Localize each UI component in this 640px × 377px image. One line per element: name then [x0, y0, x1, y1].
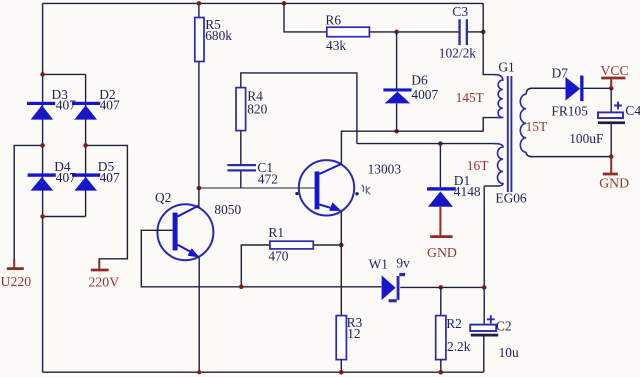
svg-text:12: 12	[347, 326, 360, 341]
wire 16T bottom to zener node	[483, 186, 485, 287]
svg-text:407: 407	[56, 98, 76, 113]
svg-text:GND: GND	[427, 245, 457, 260]
diode D1	[427, 187, 456, 190]
zener W1	[382, 275, 396, 300]
svg-text:2.2k: 2.2k	[447, 339, 471, 354]
transistor 13003	[299, 160, 354, 215]
svg-text:680k: 680k	[205, 28, 232, 43]
svg-text:8050: 8050	[214, 202, 241, 217]
capacitor C3	[458, 19, 460, 45]
svg-text:R6: R6	[325, 13, 341, 28]
wire top rail	[43, 2, 484, 4]
resistor R5	[198, 3, 200, 17]
wire AC left bracket to U220	[14, 145, 42, 259]
diode D3	[27, 102, 55, 105]
terminal 220V	[98, 260, 100, 269]
diode D7	[566, 77, 581, 101]
transistor Q2	[157, 204, 213, 260]
node bridge top junction	[40, 72, 45, 77]
svg-text:472: 472	[258, 172, 278, 187]
wire left main vertical (bridge left column down to bottom rail)	[42, 3, 44, 372]
resistor R1	[241, 245, 270, 287]
wire 13003 collector to transformer primary	[341, 118, 497, 165]
svg-text:G1: G1	[498, 59, 514, 74]
svg-text:407: 407	[56, 170, 76, 185]
svg-text:D6: D6	[411, 73, 428, 88]
svg-text:220V: 220V	[89, 275, 120, 290]
node D6 top junction	[394, 30, 399, 35]
winding primary 145T	[483, 3, 494, 74]
capacitor C2	[483, 287, 485, 324]
node R1 left junction	[239, 285, 244, 290]
wire R4 to C1	[240, 131, 242, 164]
svg-text:145T: 145T	[456, 90, 484, 105]
terminal GND (D1)	[439, 207, 441, 236]
node R5/C1/Q2/13003 base junction	[197, 186, 202, 191]
svg-text:D7: D7	[552, 66, 569, 81]
svg-text:R1: R1	[268, 225, 284, 240]
svg-text:16T: 16T	[467, 158, 489, 173]
node D6 bottom junction	[394, 129, 399, 134]
svg-text:470: 470	[268, 249, 288, 264]
node bridge bottom junction	[40, 214, 45, 219]
resistor R2	[440, 287, 442, 315]
svg-text:407: 407	[100, 98, 120, 113]
node VCC junction	[609, 86, 614, 91]
capacitor C1	[227, 164, 256, 166]
wire Q2 emitter to bottom rail	[198, 258, 200, 373]
resistor R3	[336, 316, 346, 360]
terminal GND (output)	[610, 157, 612, 173]
winding feedback 16T	[357, 143, 494, 145]
node D1 top junction	[438, 141, 443, 146]
capacitor C4	[610, 88, 612, 112]
svg-text:VCC: VCC	[600, 63, 628, 78]
svg-text:FR105: FR105	[551, 104, 588, 119]
wire bridge bottom link	[43, 216, 86, 218]
svg-text:15T: 15T	[526, 119, 548, 134]
svg-text:C4: C4	[625, 103, 640, 118]
svg-text:4007: 4007	[411, 87, 438, 102]
wire R6 branch from top rail	[284, 3, 327, 32]
svg-text:C3: C3	[452, 4, 468, 19]
node top rail R5 junction	[197, 1, 202, 6]
node R1 right junction	[339, 243, 344, 248]
node C2/16T junction	[482, 285, 487, 290]
resistor R4	[236, 88, 246, 131]
wire zener to R2/C2 node	[400, 286, 484, 288]
svg-text:13003: 13003	[368, 162, 402, 177]
svg-text:C2: C2	[496, 319, 512, 334]
wire R6 to C3	[369, 31, 458, 33]
wire Q2 collector	[198, 188, 200, 208]
node bridge AC left junction	[40, 143, 45, 148]
diode D2	[72, 102, 100, 105]
node bridge AC right junction	[83, 143, 88, 148]
diode D5	[72, 173, 100, 176]
svg-text:407: 407	[100, 170, 120, 185]
label C4 plus	[614, 102, 622, 110]
node R2 bottom junction	[439, 370, 444, 375]
svg-text:102/2k: 102/2k	[439, 46, 477, 61]
diode D4	[28, 173, 56, 176]
wire 13003 emitter down to R3	[340, 211, 342, 316]
node C4 bottom junction	[609, 154, 614, 159]
svg-text:9v: 9v	[396, 255, 410, 270]
svg-text:W1: W1	[369, 257, 388, 272]
terminal U220	[13, 259, 15, 268]
svg-text:820: 820	[247, 102, 267, 117]
svg-text:10u: 10u	[499, 345, 519, 360]
svg-text:4148: 4148	[454, 184, 481, 199]
terminal VCC	[610, 79, 612, 88]
node C3 right junction	[481, 30, 486, 35]
wire R4 top to 16T winding	[241, 73, 357, 144]
wire base node to 13003	[199, 187, 315, 189]
wire bridge top link	[43, 73, 86, 75]
diode D6	[383, 88, 411, 91]
pin mark 13003 base	[295, 192, 298, 195]
svg-text:R2: R2	[446, 316, 462, 331]
wire D6 upper lead	[396, 32, 398, 89]
node R2 top junction	[439, 285, 444, 290]
svg-text:Q2: Q2	[155, 190, 171, 205]
node R3 bottom junction	[339, 370, 344, 375]
wire bottom rail	[43, 371, 484, 373]
node emitter bottom junction	[197, 370, 201, 374]
wire D1 top lead	[439, 144, 441, 188]
svg-text:GND: GND	[599, 175, 629, 190]
svg-text:U220: U220	[1, 274, 32, 289]
node top rail R6 junction	[282, 1, 287, 6]
pin mark 13003 emitter squiggle	[355, 192, 358, 195]
wire AC right bracket to 220V	[86, 145, 128, 260]
svg-text:100uF: 100uF	[569, 131, 603, 146]
winding secondary 15T	[526, 88, 566, 94]
resistor R6	[327, 27, 370, 37]
wire bridge right column	[85, 74, 87, 216]
svg-text:43k: 43k	[326, 38, 346, 53]
svg-text:EG06: EG06	[495, 191, 527, 206]
wire Q2 base	[141, 230, 381, 286]
transformer G1 core	[507, 76, 509, 192]
label C2 plus	[487, 315, 495, 323]
